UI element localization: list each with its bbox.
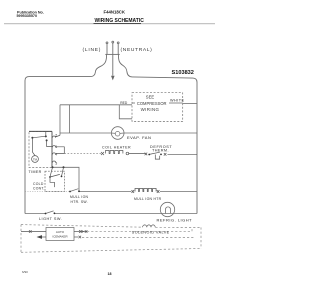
svg-text:REFRIG. LIGHT: REFRIG. LIGHT	[157, 218, 193, 223]
svg-text:1: 1	[55, 145, 57, 149]
svg-text:3: 3	[55, 162, 57, 166]
svg-text:(NEUTRAL): (NEUTRAL)	[121, 47, 153, 53]
svg-text:SEE: SEE	[146, 95, 155, 100]
svg-text:HTR. SW.: HTR. SW.	[71, 200, 88, 204]
svg-text:LIGHT SW.: LIGHT SW.	[39, 217, 62, 221]
svg-text:WHITE: WHITE	[170, 99, 184, 103]
svg-text:4: 4	[55, 153, 57, 157]
svg-text:5995335570: 5995335570	[17, 14, 38, 18]
svg-text:ICEMAKER: ICEMAKER	[52, 235, 67, 239]
svg-text:WIRING: WIRING	[141, 107, 160, 112]
svg-text:THERM.: THERM.	[152, 149, 169, 153]
svg-text:18: 18	[108, 272, 112, 276]
svg-text:F44N18CK: F44N18CK	[104, 9, 126, 14]
svg-text:6/90: 6/90	[22, 270, 28, 274]
svg-text:CONT.: CONT.	[33, 187, 45, 191]
svg-text:2: 2	[55, 133, 57, 137]
svg-text:TIMER: TIMER	[29, 170, 42, 174]
svg-text:WIRING SCHEMATIC: WIRING SCHEMATIC	[95, 18, 145, 24]
svg-text:(LINE): (LINE)	[83, 47, 102, 53]
svg-text:MULL ION: MULL ION	[70, 195, 89, 199]
svg-text:TM: TM	[33, 157, 38, 161]
svg-text:COMPRESSOR: COMPRESSOR	[137, 101, 167, 106]
svg-text:AUTO: AUTO	[56, 230, 65, 234]
svg-text:EVAP. FAN: EVAP. FAN	[127, 135, 151, 140]
svg-text:SOLENOID VALVE: SOLENOID VALVE	[132, 230, 170, 234]
svg-text:MULL ION HTR: MULL ION HTR	[134, 197, 162, 201]
svg-text:COIL HEATER: COIL HEATER	[102, 146, 131, 150]
svg-text:COLD: COLD	[33, 182, 44, 186]
svg-text:RED: RED	[120, 101, 128, 105]
svg-text:S103832: S103832	[172, 70, 194, 76]
